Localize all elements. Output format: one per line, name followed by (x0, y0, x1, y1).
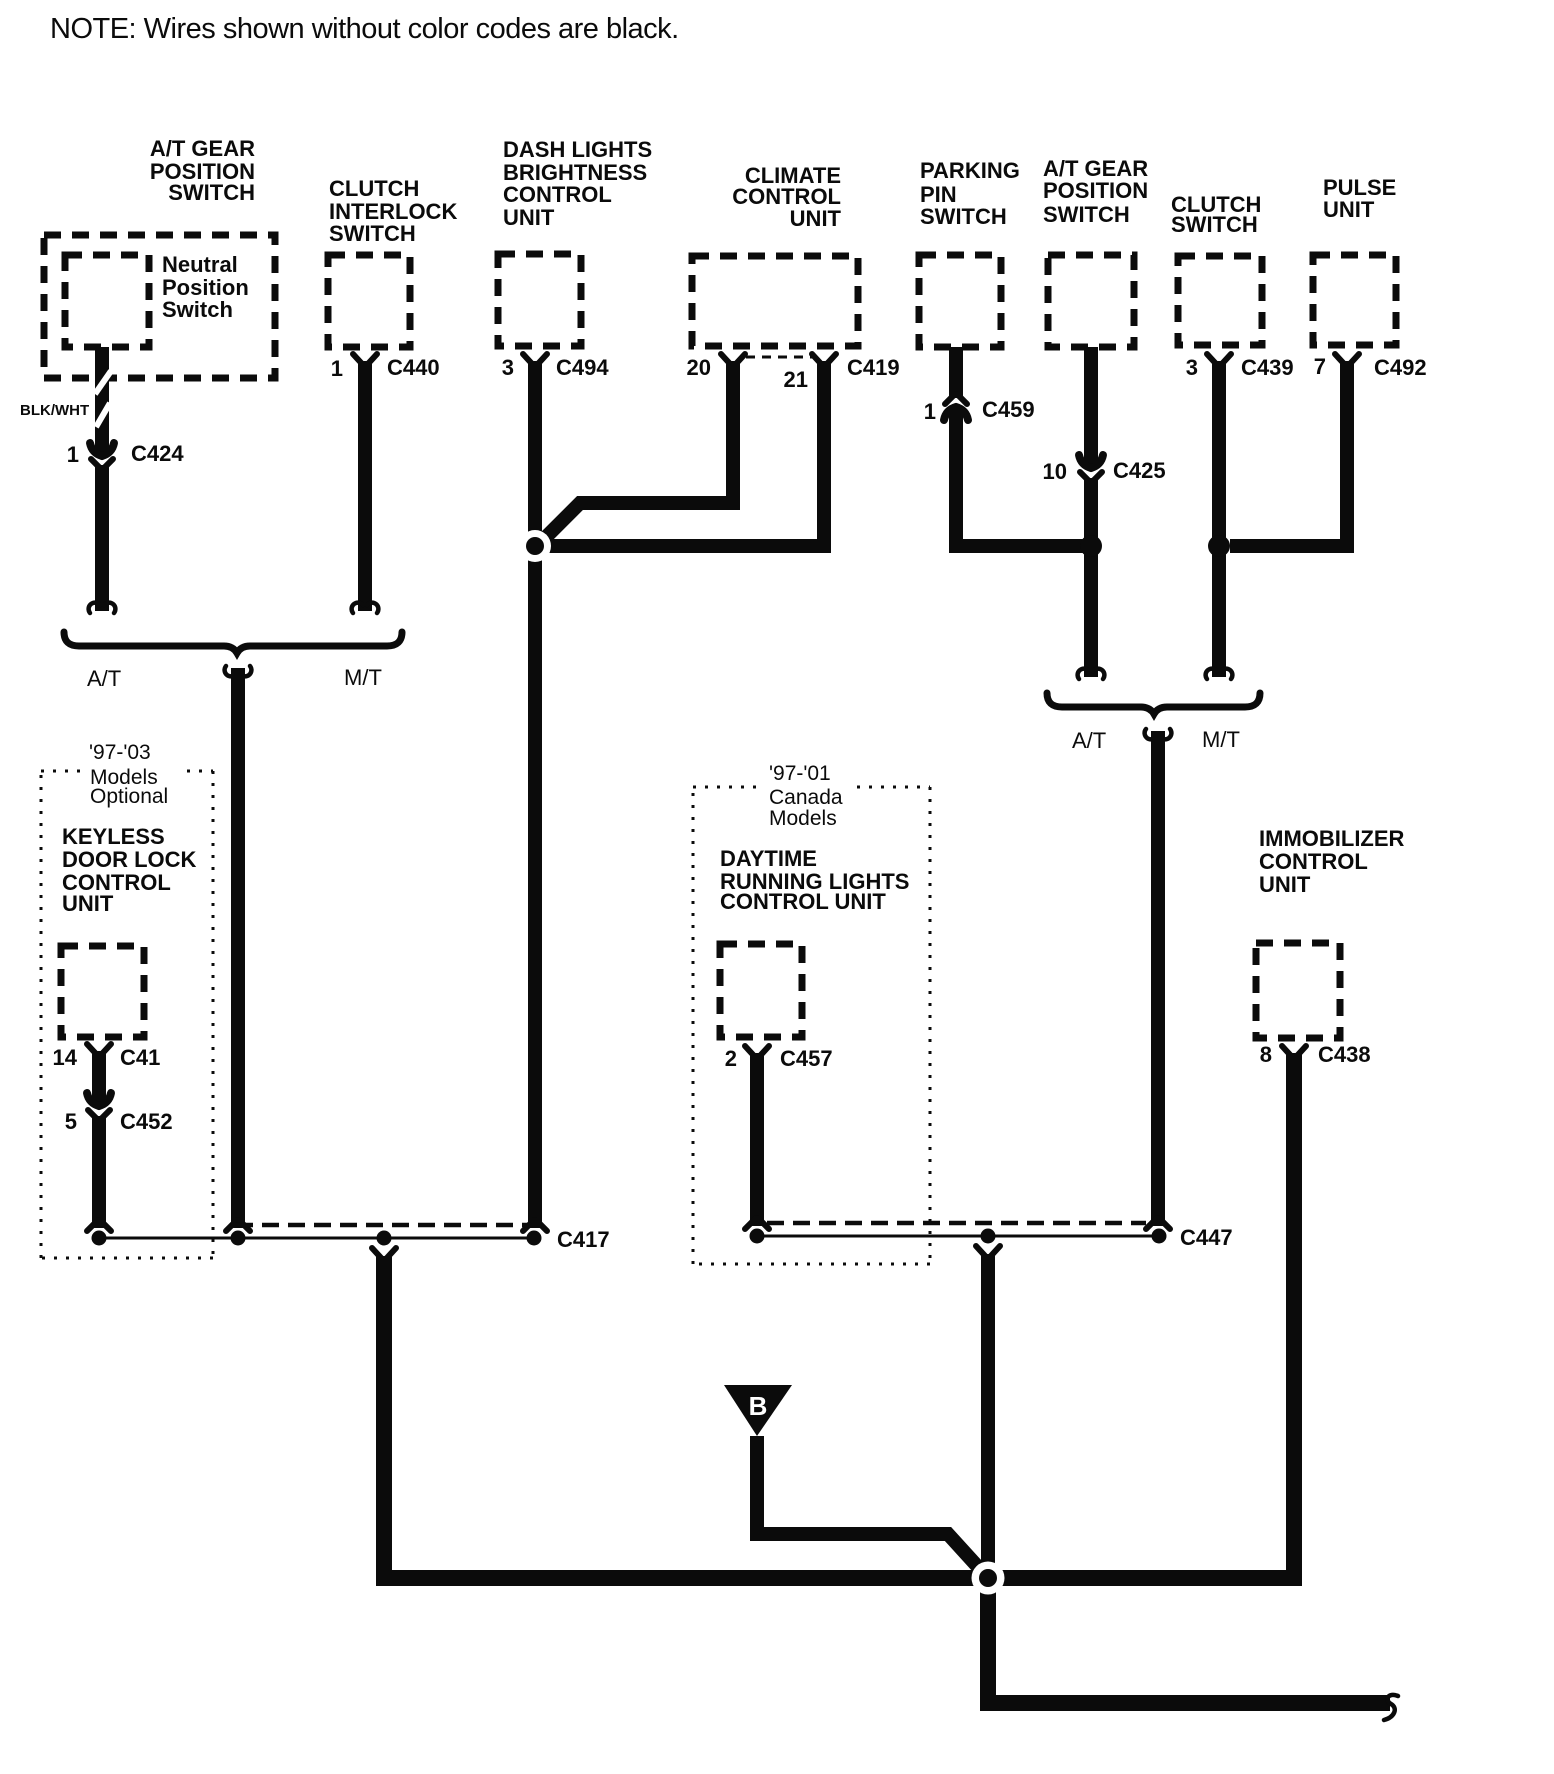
svg-text:1: 1 (924, 399, 936, 424)
climate pin 20 connector (721, 354, 745, 366)
svg-text:SWITCH: SWITCH (168, 180, 255, 205)
wire immobilizer down to main run (988, 1053, 1294, 1578)
svg-text:'97-'01: '97-'01 (769, 762, 831, 785)
junction dash lights node (526, 537, 544, 555)
C447 bus dashed line (767, 1221, 1146, 1226)
svg-text:M/T: M/T (344, 665, 382, 690)
wire keyless upper (92, 1051, 106, 1106)
climate control unit label (732, 163, 841, 231)
svg-text:C41: C41 (120, 1045, 160, 1070)
svg-text:C457: C457 (780, 1046, 833, 1071)
svg-text:DASH LIGHTS: DASH LIGHTS (503, 137, 652, 162)
A/T gear position switch (right) label (1043, 156, 1148, 227)
svg-text:20: 20 (687, 355, 711, 380)
C417 node dash lights (527, 1231, 542, 1246)
svg-text:SWITCH: SWITCH (1171, 212, 1258, 237)
pin 3 label C494 (502, 355, 610, 380)
svg-text:UNIT: UNIT (1259, 872, 1311, 897)
daytime running lights control unit box (720, 944, 802, 1037)
svg-text:PARKING: PARKING (920, 158, 1020, 183)
left brace A/T-M/T (64, 632, 402, 653)
parking pin switch box (919, 255, 1001, 347)
connector C439 symbol (1207, 354, 1231, 366)
keyless door lock control unit label (62, 824, 197, 916)
immobilizer control unit label (1259, 826, 1405, 897)
B ground triangle (724, 1385, 792, 1436)
svg-text:5: 5 (65, 1109, 77, 1134)
svg-text:M/T: M/T (1202, 727, 1240, 752)
svg-text:KEYLESS: KEYLESS (62, 824, 165, 849)
svg-text:C494: C494 (556, 355, 609, 380)
dash lights brightness control unit label (503, 137, 652, 230)
pin 10 label C425 (1043, 458, 1166, 484)
C447 node brace wire (1152, 1229, 1167, 1244)
svg-text:7: 7 (1314, 354, 1326, 379)
junction dash lights node white ring (519, 530, 551, 562)
svg-text:A/T GEAR: A/T GEAR (150, 136, 255, 161)
wire A/T gear (right) upper (1084, 347, 1098, 468)
wire end hook (1206, 669, 1233, 679)
svg-text:3: 3 (1186, 355, 1198, 380)
connector C425 symbol (1079, 455, 1103, 482)
svg-text:1: 1 (331, 356, 343, 381)
svg-text:C425: C425 (1113, 458, 1166, 483)
svg-text:A/T: A/T (1072, 728, 1106, 753)
immobilizer control unit box (1256, 943, 1340, 1038)
svg-text:C447: C447 (1180, 1225, 1233, 1250)
svg-text:C438: C438 (1318, 1042, 1371, 1067)
A/T gear position switch label (150, 136, 255, 205)
climate pin 21 connector (812, 354, 836, 366)
svg-text:3: 3 (502, 355, 514, 380)
svg-text:C452: C452 (120, 1109, 173, 1134)
keyless door lock control unit box (61, 946, 144, 1037)
svg-text:BLK/WHT: BLK/WHT (20, 402, 89, 419)
pin labels 20 21 C419 (687, 355, 900, 392)
connector C459 symbol (944, 394, 968, 420)
wire C447 tap down through junction (976, 1246, 1000, 1578)
svg-text:C492: C492 (1374, 355, 1427, 380)
canada dotted enclosure (693, 787, 930, 1264)
connector C41 symbol (87, 1044, 111, 1056)
wire end hook (89, 603, 116, 613)
svg-text:C439: C439 (1241, 355, 1294, 380)
svg-text:POSITION: POSITION (1043, 178, 1148, 203)
svg-text:Switch: Switch (162, 297, 233, 322)
svg-text:SWITCH: SWITCH (329, 221, 416, 246)
svg-text:CONTROL: CONTROL (1259, 849, 1368, 874)
wire C417 tap down to main run (372, 1248, 988, 1578)
svg-text:DOOR LOCK: DOOR LOCK (62, 847, 197, 872)
pin 14 label C41 (53, 1045, 161, 1070)
'97-'01 canada models label (769, 762, 843, 830)
wire from right brace to C447 (1145, 729, 1172, 1229)
svg-text:Models: Models (769, 807, 837, 830)
wire A/T gear (right) lower (1084, 478, 1098, 677)
pulse unit label (1323, 175, 1396, 222)
wire below C424 (95, 465, 109, 611)
svg-text:C440: C440 (387, 355, 440, 380)
clutch switch label (1171, 192, 1261, 237)
svg-text:SWITCH: SWITCH (1043, 202, 1130, 227)
clutch interlock switch box (328, 255, 410, 347)
connector C492 symbol (1335, 354, 1359, 366)
svg-text:C424: C424 (131, 441, 184, 466)
svg-text:SWITCH: SWITCH (920, 204, 1007, 229)
pin 5 label C452 (65, 1109, 173, 1134)
neutral position switch box (65, 255, 149, 347)
C417 bus dashed line (236, 1223, 531, 1228)
svg-text:UNIT: UNIT (503, 205, 555, 230)
right brace A/T-M/T (1047, 693, 1260, 714)
dashed link pins 20-21 (746, 356, 812, 359)
pin 7 label C492 (1314, 354, 1427, 380)
pin 1 label C459 (924, 397, 1035, 424)
dash lights brightness control unit box (498, 254, 581, 346)
pin 1 label C424 (67, 441, 185, 467)
main junction node (979, 1569, 997, 1587)
C417 node tap (377, 1231, 392, 1246)
wire climate pin 21 (549, 361, 824, 546)
svg-text:C417: C417 (557, 1227, 610, 1252)
svg-text:21: 21 (784, 367, 808, 392)
pin 8 label C438 (1260, 1042, 1371, 1067)
svg-text:14: 14 (53, 1045, 78, 1070)
connector C452 symbol (87, 1093, 111, 1120)
wire neutral switch BLK/WHT (95, 347, 111, 456)
A/T gear position switch (right) box (1048, 255, 1134, 347)
'97-'03 models optional label (89, 741, 168, 808)
connector C438 symbol (1282, 1046, 1306, 1058)
wire daytime running lights (745, 1053, 769, 1229)
clutch switch box (1178, 256, 1262, 345)
C417 node keyless (92, 1231, 107, 1246)
pin 1 label C440 (331, 355, 440, 381)
svg-text:CONTROL: CONTROL (503, 182, 612, 207)
daytime running lights control unit label (720, 846, 909, 914)
svg-text:Canada: Canada (769, 786, 843, 809)
C447 bus line (757, 1235, 1160, 1238)
svg-text:UNIT: UNIT (62, 891, 114, 916)
junction node A/T gear (1080, 535, 1102, 557)
C447 node tap (981, 1229, 996, 1244)
wire dash lights down to C417 (523, 361, 547, 1231)
pulse unit box (1313, 255, 1396, 345)
svg-text:2: 2 (725, 1046, 737, 1071)
climate control unit box (692, 256, 858, 346)
connector C424 symbol (90, 443, 114, 469)
svg-text:Optional: Optional (90, 785, 168, 808)
svg-text:10: 10 (1043, 459, 1067, 484)
svg-text:C419: C419 (847, 355, 900, 380)
C417 bus line (99, 1237, 535, 1240)
connector C440 symbol (353, 354, 377, 366)
svg-text:8: 8 (1260, 1042, 1272, 1067)
connector C494 symbol (523, 354, 547, 366)
wire end hook (352, 603, 379, 613)
clutch interlock switch label (329, 176, 457, 246)
wire clutch interlock (358, 361, 372, 611)
svg-text:CLUTCH: CLUTCH (329, 176, 419, 201)
wire from left brace to C417 (225, 666, 252, 1231)
C417 node brace wire (231, 1231, 246, 1246)
C447 node daytime (750, 1229, 765, 1244)
svg-text:IMMOBILIZER: IMMOBILIZER (1259, 826, 1405, 851)
svg-text:B: B (749, 1391, 768, 1421)
wire keyless lower (87, 1116, 111, 1231)
svg-text:CONTROL UNIT: CONTROL UNIT (720, 889, 886, 914)
wire from B triangle to junction (757, 1436, 988, 1578)
wire parking pin to A/T gear junction (956, 407, 1091, 546)
pin 3 label C439 (1186, 355, 1294, 380)
junction node clutch switch (1208, 535, 1230, 557)
svg-text:Neutral: Neutral (162, 252, 238, 277)
neutral position switch label (162, 252, 249, 322)
wire end hook (1078, 669, 1105, 679)
wire junction down to bottom run (988, 1578, 1390, 1703)
pin 2 label C457 (725, 1046, 833, 1071)
svg-text:A/T: A/T (87, 666, 121, 691)
squiggle end (1384, 1695, 1398, 1720)
main junction white ring (972, 1562, 1005, 1595)
connector C457 symbol (745, 1046, 769, 1058)
svg-text:1: 1 (67, 442, 79, 467)
svg-text:'97-'03: '97-'03 (89, 741, 151, 764)
wire parking pin switch (949, 347, 963, 398)
svg-text:C459: C459 (982, 397, 1035, 422)
svg-text:DAYTIME: DAYTIME (720, 846, 817, 871)
svg-text:UNIT: UNIT (1323, 197, 1375, 222)
wire climate pin 20 (539, 361, 733, 544)
parking pin switch label (920, 158, 1020, 229)
svg-text:UNIT: UNIT (790, 206, 842, 231)
wire pulse unit (1230, 361, 1347, 546)
wire clutch switch down (1212, 361, 1226, 677)
svg-text:NOTE: Wires shown without colo: NOTE: Wires shown without color codes ar… (50, 13, 679, 45)
A/T gear position switch outer box (44, 235, 275, 378)
keyless dotted enclosure (41, 771, 213, 1258)
